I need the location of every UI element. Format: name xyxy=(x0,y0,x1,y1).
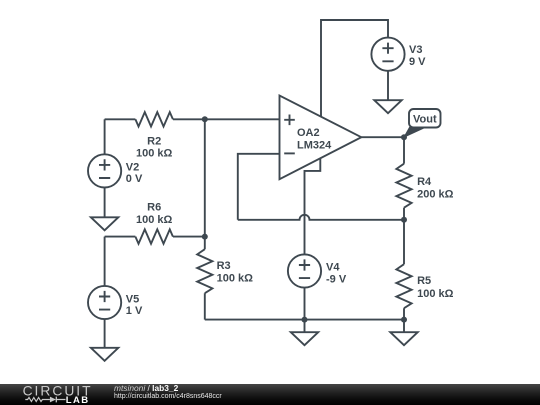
svg-text:V5: V5 xyxy=(126,293,139,305)
svg-text:V2: V2 xyxy=(126,161,139,173)
svg-text:R2: R2 xyxy=(147,135,161,147)
svg-text:100 kΩ: 100 kΩ xyxy=(217,272,254,284)
svg-text:200 kΩ: 200 kΩ xyxy=(417,188,454,200)
svg-text:R5: R5 xyxy=(417,275,431,287)
svg-text:R6: R6 xyxy=(147,201,161,213)
svg-text:LAB: LAB xyxy=(66,395,90,405)
svg-text:R4: R4 xyxy=(417,176,432,188)
svg-text:100 kΩ: 100 kΩ xyxy=(136,148,173,160)
svg-text:LM324: LM324 xyxy=(297,140,332,152)
svg-text:100 kΩ: 100 kΩ xyxy=(417,288,454,300)
svg-text:R3: R3 xyxy=(217,260,231,272)
svg-text:OA2: OA2 xyxy=(297,127,320,139)
svg-text:9 V: 9 V xyxy=(409,56,426,68)
svg-text:V4: V4 xyxy=(326,261,340,273)
svg-text:V3: V3 xyxy=(409,44,422,56)
svg-text:Vout: Vout xyxy=(413,113,437,125)
svg-text:-9 V: -9 V xyxy=(326,274,347,286)
svg-text:0 V: 0 V xyxy=(126,173,143,185)
svg-text:100 kΩ: 100 kΩ xyxy=(136,214,173,226)
svg-text:1 V: 1 V xyxy=(126,305,143,317)
